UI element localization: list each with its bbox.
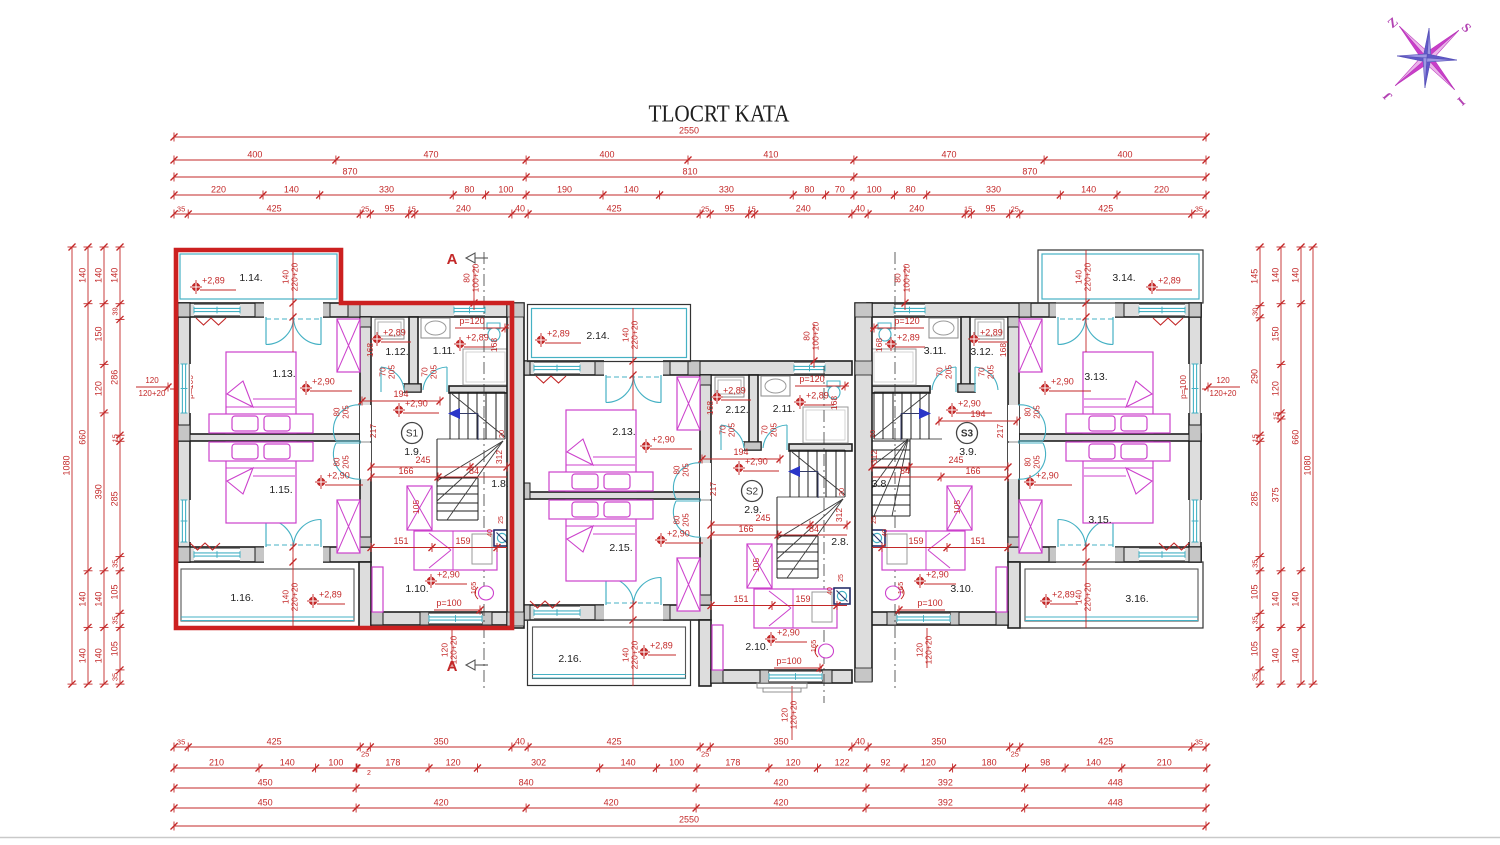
svg-text:205: 205 bbox=[1033, 455, 1042, 469]
svg-text:660: 660 bbox=[78, 430, 88, 445]
svg-text:290: 290 bbox=[1250, 369, 1260, 384]
svg-text:15: 15 bbox=[1272, 412, 1281, 420]
svg-text:+2,90: +2,90 bbox=[777, 628, 800, 638]
svg-text:35: 35 bbox=[1195, 205, 1203, 214]
svg-text:1.10.: 1.10. bbox=[405, 583, 428, 595]
svg-text:420: 420 bbox=[604, 798, 619, 808]
svg-text:210: 210 bbox=[1157, 758, 1172, 768]
svg-text:165: 165 bbox=[896, 582, 905, 595]
svg-text:150: 150 bbox=[94, 326, 104, 341]
svg-text:+2,90: +2,90 bbox=[327, 471, 350, 481]
svg-text:330: 330 bbox=[379, 185, 394, 195]
svg-text:448: 448 bbox=[1108, 798, 1123, 808]
svg-text:425: 425 bbox=[607, 737, 622, 747]
svg-text:1.16.: 1.16. bbox=[230, 592, 253, 604]
svg-text:205: 205 bbox=[342, 455, 351, 469]
svg-text:166: 166 bbox=[398, 466, 413, 476]
svg-text:1080: 1080 bbox=[62, 455, 72, 475]
svg-text:3.9.: 3.9. bbox=[959, 446, 977, 458]
svg-text:1.12.: 1.12. bbox=[385, 346, 408, 358]
svg-text:178: 178 bbox=[385, 758, 400, 768]
svg-text:+2,89: +2,89 bbox=[806, 391, 829, 401]
svg-text:+2,89: +2,89 bbox=[319, 590, 342, 600]
svg-text:80: 80 bbox=[906, 185, 916, 195]
svg-text:166: 166 bbox=[965, 466, 980, 476]
svg-text:140: 140 bbox=[621, 758, 636, 768]
svg-text:140: 140 bbox=[1086, 758, 1101, 768]
svg-text:140: 140 bbox=[78, 592, 88, 607]
svg-text:95: 95 bbox=[985, 204, 995, 214]
svg-text:15: 15 bbox=[748, 205, 756, 214]
svg-text:312: 312 bbox=[869, 450, 879, 464]
svg-text:205: 205 bbox=[986, 365, 996, 379]
svg-text:194: 194 bbox=[733, 447, 748, 457]
svg-text:2.14.: 2.14. bbox=[586, 330, 609, 342]
svg-text:870: 870 bbox=[342, 167, 357, 177]
svg-text:20: 20 bbox=[868, 430, 877, 438]
svg-text:220: 220 bbox=[211, 185, 226, 195]
svg-text:166: 166 bbox=[738, 524, 753, 534]
svg-text:105: 105 bbox=[411, 500, 421, 514]
svg-text:105: 105 bbox=[751, 558, 761, 572]
svg-text:120: 120 bbox=[446, 758, 461, 768]
svg-text:140: 140 bbox=[284, 185, 299, 195]
svg-text:84: 84 bbox=[809, 524, 819, 534]
svg-text:205: 205 bbox=[769, 423, 779, 437]
svg-text:100+20: 100+20 bbox=[902, 263, 912, 292]
svg-text:120: 120 bbox=[1271, 381, 1281, 396]
svg-text:240: 240 bbox=[456, 204, 471, 214]
svg-text:p=120: p=120 bbox=[894, 316, 919, 326]
svg-text:+2,90: +2,90 bbox=[667, 529, 690, 539]
svg-text:410: 410 bbox=[763, 150, 778, 160]
svg-text:205: 205 bbox=[682, 513, 691, 527]
svg-text:p=100: p=100 bbox=[917, 598, 942, 608]
svg-text:25: 25 bbox=[701, 205, 709, 214]
svg-text:330: 330 bbox=[986, 185, 1001, 195]
svg-text:217: 217 bbox=[368, 424, 378, 438]
svg-text:30: 30 bbox=[1251, 308, 1260, 316]
svg-text:105: 105 bbox=[952, 500, 962, 514]
svg-text:S2: S2 bbox=[746, 487, 759, 498]
svg-text:1.13.: 1.13. bbox=[272, 368, 295, 380]
svg-text:217: 217 bbox=[995, 424, 1005, 438]
svg-text:40: 40 bbox=[855, 737, 865, 747]
svg-text:120: 120 bbox=[94, 381, 104, 396]
svg-text:25: 25 bbox=[498, 516, 505, 524]
svg-text:40: 40 bbox=[855, 204, 865, 214]
svg-text:80: 80 bbox=[333, 407, 342, 416]
svg-text:2.9.: 2.9. bbox=[744, 504, 762, 516]
svg-text:168: 168 bbox=[829, 396, 839, 410]
svg-text:3.13.: 3.13. bbox=[1084, 371, 1107, 383]
svg-text:150: 150 bbox=[1271, 326, 1281, 341]
svg-text:870: 870 bbox=[1022, 167, 1037, 177]
svg-text:+2,89: +2,89 bbox=[650, 641, 673, 651]
svg-text:+2,90: +2,90 bbox=[926, 570, 949, 580]
svg-text:A: A bbox=[447, 251, 458, 268]
svg-text:140: 140 bbox=[78, 268, 88, 283]
svg-text:159: 159 bbox=[795, 594, 810, 604]
svg-text:+2,90: +2,90 bbox=[745, 457, 768, 467]
svg-text:120: 120 bbox=[786, 758, 801, 768]
svg-text:95: 95 bbox=[724, 204, 734, 214]
svg-text:205: 205 bbox=[429, 365, 439, 379]
svg-text:84: 84 bbox=[469, 466, 479, 476]
svg-text:35: 35 bbox=[111, 560, 120, 568]
svg-text:120: 120 bbox=[1216, 376, 1230, 385]
svg-text:145: 145 bbox=[1250, 269, 1260, 284]
svg-text:312: 312 bbox=[834, 508, 844, 522]
svg-text:120+20: 120+20 bbox=[1210, 389, 1237, 398]
svg-text:1.14.: 1.14. bbox=[239, 272, 262, 284]
svg-text:220+20: 220+20 bbox=[1083, 262, 1093, 291]
svg-text:140: 140 bbox=[94, 268, 104, 283]
svg-text:15: 15 bbox=[964, 205, 972, 214]
svg-text:+2,89: +2,89 bbox=[980, 328, 1003, 338]
svg-text:35: 35 bbox=[1251, 560, 1260, 568]
svg-text:+2,90: +2,90 bbox=[437, 570, 460, 580]
svg-text:450: 450 bbox=[258, 798, 273, 808]
svg-text:420: 420 bbox=[434, 798, 449, 808]
svg-text:80: 80 bbox=[673, 465, 682, 474]
svg-text:420: 420 bbox=[773, 798, 788, 808]
svg-text:39: 39 bbox=[111, 307, 120, 315]
svg-text:220+20: 220+20 bbox=[630, 640, 640, 669]
svg-text:140: 140 bbox=[94, 648, 104, 663]
svg-text:35: 35 bbox=[177, 205, 185, 214]
svg-text:194: 194 bbox=[970, 409, 985, 419]
svg-text:140: 140 bbox=[1271, 592, 1281, 607]
svg-text:TLOCRT KATA: TLOCRT KATA bbox=[649, 102, 791, 128]
svg-text:159: 159 bbox=[455, 536, 470, 546]
svg-text:105: 105 bbox=[110, 584, 120, 599]
svg-text:392: 392 bbox=[938, 778, 953, 788]
svg-text:194: 194 bbox=[393, 389, 408, 399]
svg-text:40: 40 bbox=[827, 587, 834, 595]
svg-text:+2,89: +2,89 bbox=[202, 276, 225, 286]
svg-text:140: 140 bbox=[624, 185, 639, 195]
svg-text:15: 15 bbox=[1251, 434, 1260, 442]
svg-text:100+20: 100+20 bbox=[811, 321, 821, 350]
svg-text:100+20: 100+20 bbox=[471, 263, 481, 292]
svg-text:140: 140 bbox=[110, 268, 120, 283]
svg-text:425: 425 bbox=[267, 737, 282, 747]
svg-text:400: 400 bbox=[599, 150, 614, 160]
svg-text:35: 35 bbox=[1251, 673, 1260, 681]
svg-text:330: 330 bbox=[719, 185, 734, 195]
svg-text:95: 95 bbox=[384, 204, 394, 214]
svg-text:220: 220 bbox=[1154, 185, 1169, 195]
svg-text:40: 40 bbox=[882, 529, 889, 537]
svg-text:140: 140 bbox=[94, 592, 104, 607]
svg-text:302: 302 bbox=[531, 758, 546, 768]
svg-text:105: 105 bbox=[1250, 641, 1260, 656]
svg-text:84: 84 bbox=[900, 466, 910, 476]
svg-text:80: 80 bbox=[673, 515, 682, 524]
svg-text:400: 400 bbox=[1117, 150, 1132, 160]
svg-text:+2,90: +2,90 bbox=[405, 399, 428, 409]
svg-text:15: 15 bbox=[408, 205, 416, 214]
svg-text:840: 840 bbox=[519, 778, 534, 788]
svg-text:660: 660 bbox=[1291, 430, 1301, 445]
svg-text:100: 100 bbox=[669, 758, 684, 768]
svg-text:100: 100 bbox=[498, 185, 513, 195]
svg-text:425: 425 bbox=[1098, 204, 1113, 214]
svg-text:+2,89: +2,89 bbox=[383, 328, 406, 338]
svg-text:205: 205 bbox=[682, 463, 691, 477]
svg-text:25: 25 bbox=[1011, 205, 1019, 214]
svg-text:350: 350 bbox=[931, 737, 946, 747]
svg-text:240: 240 bbox=[796, 204, 811, 214]
svg-text:1.9.: 1.9. bbox=[404, 446, 422, 458]
svg-text:35: 35 bbox=[1251, 616, 1260, 624]
svg-text:205: 205 bbox=[342, 405, 351, 419]
svg-text:25: 25 bbox=[871, 516, 878, 524]
svg-text:390: 390 bbox=[94, 484, 104, 499]
svg-text:120+20: 120+20 bbox=[449, 635, 459, 664]
svg-text:178: 178 bbox=[725, 758, 740, 768]
svg-text:168: 168 bbox=[489, 338, 499, 352]
svg-text:140: 140 bbox=[1291, 268, 1301, 283]
svg-text:35: 35 bbox=[111, 673, 120, 681]
svg-text:165: 165 bbox=[809, 640, 818, 653]
svg-text:p=100: p=100 bbox=[436, 598, 461, 608]
svg-text:80: 80 bbox=[1024, 407, 1033, 416]
svg-text:180: 180 bbox=[982, 758, 997, 768]
svg-text:20: 20 bbox=[497, 430, 506, 438]
svg-text:168: 168 bbox=[705, 401, 715, 415]
svg-text:98: 98 bbox=[1040, 758, 1050, 768]
svg-text:168: 168 bbox=[998, 343, 1008, 357]
svg-text:400: 400 bbox=[247, 150, 262, 160]
svg-text:190: 190 bbox=[557, 185, 572, 195]
svg-text:25: 25 bbox=[701, 750, 709, 759]
svg-text:120+20: 120+20 bbox=[924, 635, 934, 664]
svg-text:3.11.: 3.11. bbox=[924, 345, 947, 357]
svg-text:80: 80 bbox=[464, 185, 474, 195]
svg-text:3.10.: 3.10. bbox=[950, 583, 973, 595]
svg-text:210: 210 bbox=[209, 758, 224, 768]
svg-text:2: 2 bbox=[367, 770, 371, 777]
svg-text:2.10.: 2.10. bbox=[745, 641, 768, 653]
svg-text:70: 70 bbox=[835, 185, 845, 195]
svg-text:140: 140 bbox=[78, 648, 88, 663]
svg-text:205: 205 bbox=[1033, 405, 1042, 419]
svg-text:80: 80 bbox=[804, 185, 814, 195]
svg-text:120: 120 bbox=[921, 758, 936, 768]
svg-text:140: 140 bbox=[1291, 592, 1301, 607]
svg-text:425: 425 bbox=[607, 204, 622, 214]
svg-text:425: 425 bbox=[267, 204, 282, 214]
svg-text:+2,89: +2,89 bbox=[897, 333, 920, 343]
svg-text:350: 350 bbox=[434, 737, 449, 747]
svg-text:+2,89: +2,89 bbox=[547, 329, 570, 339]
svg-text:+2,90: +2,90 bbox=[312, 377, 335, 387]
svg-text:120+20: 120+20 bbox=[789, 700, 799, 729]
svg-text:220+20: 220+20 bbox=[290, 582, 300, 611]
svg-text:205: 205 bbox=[727, 423, 737, 437]
svg-text:220+20: 220+20 bbox=[1083, 582, 1093, 611]
svg-text:285: 285 bbox=[1250, 491, 1260, 506]
svg-text:35: 35 bbox=[1195, 738, 1203, 747]
svg-text:+2,89: +2,89 bbox=[1052, 590, 1075, 600]
svg-text:140: 140 bbox=[1271, 648, 1281, 663]
svg-text:105: 105 bbox=[110, 641, 120, 656]
svg-text:286: 286 bbox=[110, 370, 120, 385]
svg-text:+2,90: +2,90 bbox=[1036, 471, 1059, 481]
svg-text:2.8.: 2.8. bbox=[831, 536, 849, 548]
svg-text:+2,90: +2,90 bbox=[958, 399, 981, 409]
svg-text:470: 470 bbox=[941, 150, 956, 160]
svg-text:3.12.: 3.12. bbox=[970, 346, 993, 358]
svg-text:80: 80 bbox=[1024, 457, 1033, 466]
svg-text:2.12.: 2.12. bbox=[725, 404, 748, 416]
svg-text:2.13.: 2.13. bbox=[612, 426, 635, 438]
svg-text:810: 810 bbox=[682, 167, 697, 177]
svg-text:p=120: p=120 bbox=[799, 374, 824, 384]
svg-text:151: 151 bbox=[733, 594, 748, 604]
svg-text:3.8: 3.8 bbox=[872, 478, 887, 490]
svg-text:15: 15 bbox=[111, 434, 120, 442]
svg-text:40: 40 bbox=[515, 204, 525, 214]
svg-text:35: 35 bbox=[177, 738, 185, 747]
svg-text:1.8.: 1.8. bbox=[491, 478, 509, 490]
svg-text:25: 25 bbox=[361, 750, 369, 759]
svg-text:165: 165 bbox=[469, 582, 478, 595]
svg-text:120: 120 bbox=[145, 376, 159, 385]
svg-text:120+20: 120+20 bbox=[139, 389, 166, 398]
svg-text:122: 122 bbox=[835, 758, 850, 768]
svg-text:100: 100 bbox=[867, 185, 882, 195]
svg-text:140: 140 bbox=[1291, 648, 1301, 663]
svg-text:2.15.: 2.15. bbox=[609, 542, 632, 554]
svg-text:40: 40 bbox=[515, 737, 525, 747]
svg-text:159: 159 bbox=[908, 536, 923, 546]
svg-text:375: 375 bbox=[1271, 487, 1281, 502]
svg-text:151: 151 bbox=[393, 536, 408, 546]
svg-text:+2,89: +2,89 bbox=[466, 333, 489, 343]
svg-text:p=120: p=120 bbox=[459, 316, 484, 326]
svg-text:350: 350 bbox=[774, 737, 789, 747]
svg-text:151: 151 bbox=[970, 536, 985, 546]
svg-text:205: 205 bbox=[387, 365, 397, 379]
svg-text:p=100: p=100 bbox=[776, 656, 801, 666]
svg-text:p=100: p=100 bbox=[1178, 375, 1188, 399]
svg-text:168: 168 bbox=[874, 338, 884, 352]
svg-text:2550: 2550 bbox=[679, 815, 699, 825]
svg-text:80: 80 bbox=[333, 457, 342, 466]
svg-text:+2,89: +2,89 bbox=[723, 386, 746, 396]
svg-text:1.15.: 1.15. bbox=[269, 484, 292, 496]
svg-text:2.11.: 2.11. bbox=[773, 403, 796, 415]
svg-text:220+20: 220+20 bbox=[290, 262, 300, 291]
svg-text:+2,90: +2,90 bbox=[1051, 377, 1074, 387]
svg-text:220+20: 220+20 bbox=[630, 320, 640, 349]
svg-text:140: 140 bbox=[280, 758, 295, 768]
svg-text:25: 25 bbox=[1011, 750, 1019, 759]
svg-text:168: 168 bbox=[365, 343, 375, 357]
svg-text:448: 448 bbox=[1108, 778, 1123, 788]
svg-text:1.11.: 1.11. bbox=[433, 345, 456, 357]
svg-text:450: 450 bbox=[258, 778, 273, 788]
svg-text:20: 20 bbox=[837, 488, 846, 496]
svg-text:217: 217 bbox=[708, 482, 718, 496]
svg-text:1080: 1080 bbox=[1303, 455, 1313, 475]
svg-text:+2,90: +2,90 bbox=[652, 435, 675, 445]
svg-text:425: 425 bbox=[1098, 737, 1113, 747]
svg-text:420: 420 bbox=[773, 778, 788, 788]
svg-text:40: 40 bbox=[487, 529, 494, 537]
svg-text:140: 140 bbox=[1271, 268, 1281, 283]
svg-text:2.16.: 2.16. bbox=[558, 653, 581, 665]
svg-text:+2,89: +2,89 bbox=[1158, 276, 1181, 286]
svg-text:3.14.: 3.14. bbox=[1112, 272, 1135, 284]
svg-text:100: 100 bbox=[328, 758, 343, 768]
svg-text:205: 205 bbox=[944, 365, 954, 379]
svg-text:25: 25 bbox=[838, 574, 845, 582]
svg-text:25: 25 bbox=[361, 205, 369, 214]
svg-text:92: 92 bbox=[880, 758, 890, 768]
svg-text:470: 470 bbox=[423, 150, 438, 160]
svg-text:105: 105 bbox=[1250, 584, 1260, 599]
svg-text:285: 285 bbox=[110, 491, 120, 506]
svg-text:240: 240 bbox=[909, 204, 924, 214]
svg-text:35: 35 bbox=[111, 616, 120, 624]
svg-text:312: 312 bbox=[494, 450, 504, 464]
svg-text:S3: S3 bbox=[961, 429, 974, 440]
svg-text:392: 392 bbox=[938, 798, 953, 808]
svg-text:S1: S1 bbox=[406, 429, 419, 440]
svg-text:2550: 2550 bbox=[679, 126, 699, 136]
svg-text:3.16.: 3.16. bbox=[1125, 593, 1148, 605]
svg-text:140: 140 bbox=[1081, 185, 1096, 195]
svg-text:3.15.: 3.15. bbox=[1088, 514, 1111, 526]
